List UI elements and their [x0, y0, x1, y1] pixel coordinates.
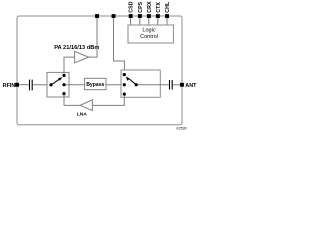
pin pad CTX [156, 14, 160, 18]
amplifier PA [75, 51, 89, 63]
switch SW1 wiper arrow [51, 79, 60, 85]
node SW2 mid [123, 83, 126, 86]
svg-text:CTX: CTX [156, 2, 162, 13]
node SW1 common [49, 83, 52, 86]
pin pad CRX [147, 14, 151, 18]
RFIN pad [15, 83, 19, 87]
svg-text:LNA: LNA [77, 111, 88, 117]
wire bypass to SW2 [106, 84, 124, 86]
wire CTX stub [157, 18, 159, 25]
svg-text:RFIN: RFIN [3, 83, 16, 89]
amplifier LNA [80, 100, 92, 111]
wire C2 to ANT pad [173, 84, 182, 86]
node SW2 top [123, 73, 126, 76]
ANT pad [180, 83, 184, 87]
svg-text:Bypass: Bypass [86, 82, 104, 88]
pin pad VCC1 [95, 14, 99, 18]
node SW1 top [62, 74, 65, 77]
wire SW2 bottom throw down to LNA input [92, 94, 124, 105]
node SW2 common [135, 83, 138, 86]
wire SW1 top throw up to PA input [64, 57, 75, 75]
svg-text:K2530: K2530 [176, 127, 186, 131]
node SW1 bottom [62, 92, 65, 95]
wire switch-input pin down to SW2 top throw [114, 18, 125, 75]
wire SW1 bottom throw down to LNA output [64, 94, 80, 106]
wire CRX stub [148, 18, 150, 25]
switch SW2 wiper arrow [128, 78, 136, 84]
wire C1 to switch SW1 [33, 84, 51, 86]
svg-text:ANT: ANT [185, 83, 197, 89]
node SW1 mid [62, 83, 65, 86]
capacitor C1 [29, 80, 31, 91]
pin pad CPS [138, 14, 142, 18]
wire CSD stub [130, 18, 132, 25]
package outline [17, 16, 182, 125]
svg-text:PA 21/16/13 dBm: PA 21/16/13 dBm [54, 45, 99, 51]
pin pad CHL [165, 14, 169, 18]
wire PA output pin down [89, 18, 97, 57]
wire SW1 mid throw to bypass [64, 84, 85, 86]
pin pad CSD [129, 14, 133, 18]
svg-text:Logic: Logic [142, 28, 155, 34]
logic control block U2 [128, 25, 173, 43]
wire RFIN to C1 [19, 84, 29, 86]
svg-text:CRX: CRX [147, 1, 153, 13]
node SW2 bottom [123, 93, 126, 96]
svg-text:CSD: CSD [129, 1, 135, 12]
bypass block [85, 78, 106, 89]
capacitor C2 [169, 80, 171, 90]
wire CHL stub [166, 18, 168, 25]
pin pad VCC2 [112, 14, 116, 18]
svg-text:Control: Control [140, 34, 158, 40]
switch SW2 box [121, 70, 160, 97]
switch SW1 box [47, 72, 69, 97]
svg-text:CPS: CPS [138, 1, 144, 12]
wire CPS stub [139, 18, 141, 25]
wire SW2 common to C2 [136, 84, 169, 86]
svg-text:CHL: CHL [165, 1, 171, 13]
